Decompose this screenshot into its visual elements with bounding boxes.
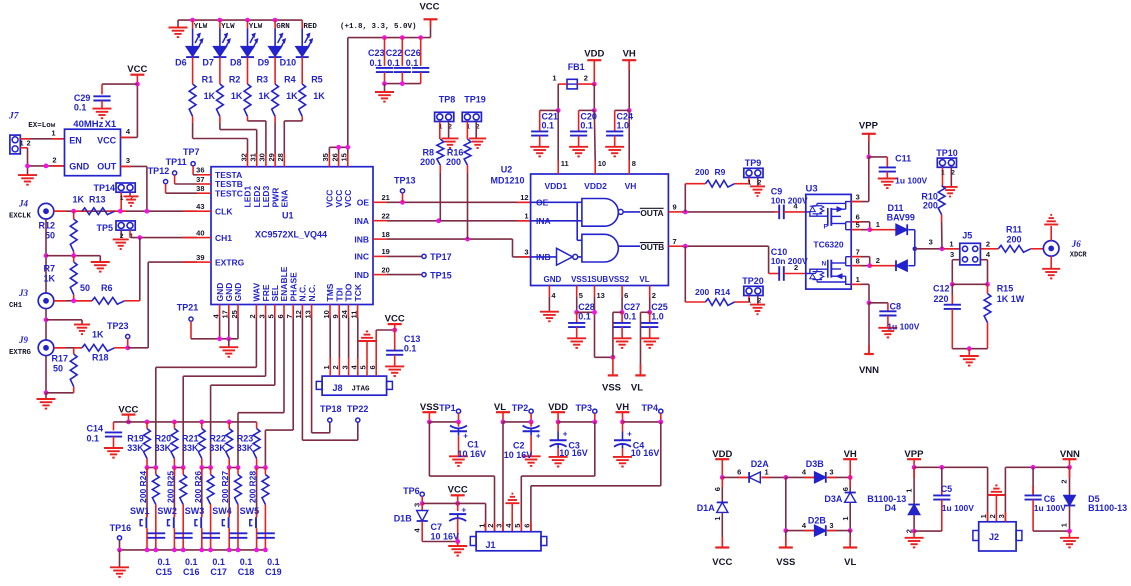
svg-text:1K: 1K bbox=[259, 91, 271, 101]
resistor R17 50 bbox=[51, 348, 77, 393]
inverted ground at J1 pin4 bbox=[505, 494, 519, 532]
svg-text:3: 3 bbox=[340, 365, 349, 369]
svg-text:19: 19 bbox=[382, 247, 390, 256]
svg-text:VCC: VCC bbox=[97, 135, 117, 145]
svg-text:JTAG: JTAG bbox=[352, 386, 371, 394]
power VL flag bottom bbox=[843, 531, 857, 569]
svg-text:22: 22 bbox=[382, 212, 390, 221]
power VCC at C7 bbox=[448, 484, 468, 506]
ground at D4 bbox=[905, 531, 924, 547]
testpoint TP13 bbox=[394, 176, 416, 203]
svg-text:SW1: SW1 bbox=[130, 506, 150, 516]
svg-text:1: 1 bbox=[979, 514, 988, 518]
testpoint TP4 bbox=[623, 403, 664, 424]
wire VSS2 junction bbox=[613, 297, 625, 357]
svg-text:C5: C5 bbox=[941, 484, 953, 494]
switch SW5 bbox=[240, 468, 260, 550]
wire U1 GND pins bbox=[191, 318, 238, 342]
svg-text:RED: RED bbox=[303, 23, 317, 31]
wire EXTRG to U1 bbox=[128, 262, 197, 348]
capacitor C25 1.0 bbox=[640, 302, 668, 348]
svg-text:20: 20 bbox=[382, 265, 390, 274]
power VSS stub bbox=[602, 357, 621, 393]
svg-text:1: 1 bbox=[941, 169, 945, 176]
junction dots J7 net bbox=[25, 164, 48, 169]
capacitor C1 10 16V bbox=[449, 422, 486, 466]
svg-text:1u 100V: 1u 100V bbox=[942, 503, 974, 513]
svg-text:1: 1 bbox=[841, 516, 850, 520]
diode D1A bbox=[697, 477, 728, 546]
svg-text:OE: OE bbox=[357, 198, 370, 208]
svg-text:10 16V: 10 16V bbox=[631, 448, 660, 458]
svg-text:0.1: 0.1 bbox=[406, 58, 419, 68]
svg-text:MD1210: MD1210 bbox=[490, 176, 524, 186]
svg-text:TP12: TP12 bbox=[148, 166, 170, 176]
svg-text:VCC: VCC bbox=[448, 484, 468, 495]
capacitor C4 10 16V bbox=[613, 422, 659, 467]
resistor R23 33K bbox=[237, 422, 260, 468]
power VH flag bbox=[622, 48, 636, 160]
ground mid column bbox=[91, 256, 110, 272]
svg-text:C13: C13 bbox=[404, 334, 421, 344]
svg-text:C11: C11 bbox=[895, 154, 911, 164]
svg-text:2: 2 bbox=[27, 138, 31, 147]
resistor R6 50 bbox=[54, 283, 140, 304]
jumper TP10 bbox=[936, 148, 958, 187]
svg-text:N: N bbox=[822, 260, 827, 267]
svg-text:GND: GND bbox=[544, 275, 562, 284]
power VNN stub bbox=[859, 303, 879, 376]
switch SW2 bbox=[157, 468, 177, 550]
svg-text:200: 200 bbox=[446, 157, 461, 167]
svg-text:7: 7 bbox=[856, 247, 860, 256]
svg-text:1K: 1K bbox=[92, 330, 104, 340]
svg-text:33K: 33K bbox=[155, 443, 172, 453]
wire VCC to J1 pin1 bbox=[422, 503, 485, 531]
svg-text:10 16V: 10 16V bbox=[559, 448, 588, 458]
svg-text:2: 2 bbox=[1060, 479, 1069, 483]
power VCC flag bottom bbox=[712, 548, 732, 569]
svg-text:11: 11 bbox=[349, 311, 358, 319]
testpoint TP17 bbox=[387, 252, 452, 262]
svg-text:R1: R1 bbox=[202, 75, 214, 85]
svg-text:C19: C19 bbox=[265, 567, 282, 577]
testpoint TP22 bbox=[347, 404, 369, 422]
capacitor C3 10 16V bbox=[549, 422, 588, 467]
svg-text:(+1.8, 3.3, 5.0V): (+1.8, 3.3, 5.0V) bbox=[340, 23, 417, 31]
svg-text:VDD: VDD bbox=[584, 48, 604, 59]
svg-text:2: 2 bbox=[652, 291, 656, 300]
svg-text:XC9572XL_VQ44: XC9572XL_VQ44 bbox=[255, 230, 327, 240]
svg-text:21: 21 bbox=[382, 193, 390, 202]
svg-text:R2: R2 bbox=[229, 75, 241, 85]
svg-text:200: 200 bbox=[695, 167, 709, 177]
svg-text:1K: 1K bbox=[286, 91, 298, 101]
svg-text:200: 200 bbox=[1006, 234, 1021, 244]
svg-text:J9: J9 bbox=[18, 335, 29, 345]
svg-text:VL: VL bbox=[631, 383, 643, 394]
ground at D5 bbox=[1060, 531, 1079, 547]
resistor R8 200 bbox=[420, 139, 444, 221]
svg-text:TP19: TP19 bbox=[464, 95, 486, 105]
wire net OE bbox=[387, 200, 531, 205]
IC U2 MD1210 bbox=[490, 165, 668, 286]
resistor R7 1K bbox=[43, 256, 77, 301]
power VPP flag bbox=[859, 121, 879, 160]
svg-text:50: 50 bbox=[53, 364, 63, 374]
U1 bottom pins bbox=[211, 266, 362, 318]
U1 left pins bbox=[196, 166, 245, 268]
svg-text:40MHz: 40MHz bbox=[73, 119, 103, 130]
wire U1 VCC pins link bbox=[329, 145, 350, 154]
svg-text:CLK: CLK bbox=[215, 206, 233, 216]
connector J6 XDCR bbox=[1043, 239, 1087, 260]
svg-text:D9: D9 bbox=[258, 58, 270, 68]
svg-text:8: 8 bbox=[856, 256, 860, 265]
svg-text:39: 39 bbox=[196, 253, 204, 262]
svg-text:TESTC: TESTC bbox=[215, 188, 243, 198]
svg-text:R19: R19 bbox=[127, 434, 144, 444]
svg-text:D10: D10 bbox=[280, 58, 297, 68]
svg-text:1: 1 bbox=[949, 240, 953, 249]
wire J8 pin6 to VCC bbox=[376, 328, 397, 371]
svg-text:R21: R21 bbox=[182, 434, 199, 444]
wire VNN rail to J2 pin3 bbox=[1005, 465, 1069, 522]
wire VCC rail bbox=[348, 35, 431, 147]
svg-text:U3: U3 bbox=[806, 184, 818, 195]
capacitor C10 10n 200V bbox=[771, 247, 808, 281]
svg-text:1K: 1K bbox=[204, 91, 216, 101]
wire CH1 line bbox=[131, 235, 197, 301]
wire LED supply rail bbox=[178, 18, 302, 23]
diode D5 B1100-13 bbox=[1060, 467, 1127, 533]
svg-text:0.1: 0.1 bbox=[542, 121, 555, 131]
ground at TP10 bbox=[943, 187, 958, 197]
svg-text:0.1: 0.1 bbox=[404, 344, 417, 354]
svg-text:VCC: VCC bbox=[127, 64, 147, 75]
svg-text:C16: C16 bbox=[183, 567, 200, 577]
testpoint TP7 bbox=[183, 147, 200, 175]
ground at U1 GND bbox=[219, 339, 238, 357]
resistor R3 1K bbox=[244, 75, 270, 117]
resistor R22 33K bbox=[209, 422, 232, 468]
svg-text:TP13: TP13 bbox=[394, 176, 416, 186]
ground above J9 bbox=[74, 320, 90, 334]
svg-text:TP7: TP7 bbox=[183, 147, 200, 157]
svg-text:1: 1 bbox=[51, 129, 55, 138]
power VSS flag bottom bbox=[776, 548, 795, 569]
wire pullup junction bbox=[199, 465, 213, 470]
junction dots CLK line bbox=[71, 209, 149, 214]
wire VPP rail to J2 pin1 bbox=[914, 465, 988, 522]
svg-text:SW2: SW2 bbox=[157, 506, 177, 516]
svg-text:8: 8 bbox=[632, 159, 636, 168]
testpoint TP18 bbox=[320, 404, 342, 422]
resistor R15 1K 1W bbox=[984, 284, 1025, 349]
connector J5 bbox=[949, 231, 990, 265]
power flag VH row bbox=[616, 402, 630, 424]
svg-text:XDCR: XDCR bbox=[1070, 252, 1088, 260]
jumper TP19 bbox=[462, 95, 486, 140]
resistor R26 200 bbox=[193, 468, 214, 505]
svg-text:INB: INB bbox=[354, 234, 369, 244]
svg-text:1: 1 bbox=[904, 489, 913, 493]
wire NC pin12 to TP22 bbox=[302, 318, 357, 441]
svg-text:TP15: TP15 bbox=[430, 270, 452, 280]
svg-text:VL: VL bbox=[639, 275, 649, 284]
svg-text:0.1: 0.1 bbox=[267, 557, 280, 567]
wire U1 signal to switch column bbox=[183, 318, 265, 468]
svg-text:TP10: TP10 bbox=[936, 148, 958, 158]
svg-text:0.1: 0.1 bbox=[158, 557, 171, 567]
capacitor C14 0.1 bbox=[87, 422, 124, 458]
U1 right pins bbox=[354, 193, 389, 280]
svg-text:C27: C27 bbox=[624, 302, 641, 312]
U1 top pins bbox=[239, 153, 353, 207]
svg-text:1: 1 bbox=[748, 298, 752, 305]
svg-text:1.0: 1.0 bbox=[617, 121, 630, 131]
ground at LED rail bbox=[169, 20, 188, 37]
capacitor C5 1u 100V bbox=[914, 467, 974, 531]
svg-text:1: 1 bbox=[765, 468, 769, 477]
power VCC at X1 bbox=[127, 64, 147, 87]
svg-text:D6: D6 bbox=[175, 58, 187, 68]
ground at TP16 bbox=[110, 550, 129, 577]
resistor R28 200 bbox=[248, 468, 269, 505]
svg-text:36: 36 bbox=[196, 166, 204, 175]
svg-text:C8: C8 bbox=[890, 301, 902, 311]
power VDD flag bottom bbox=[712, 449, 732, 480]
svg-text:TP22: TP22 bbox=[347, 404, 369, 414]
svg-text:U2: U2 bbox=[501, 165, 513, 175]
svg-text:33K: 33K bbox=[209, 443, 226, 453]
svg-text:TC6320: TC6320 bbox=[813, 239, 844, 249]
svg-text:VCC: VCC bbox=[385, 313, 405, 324]
wire pullup junction bbox=[145, 465, 159, 470]
capacitor C6 1u 100V bbox=[1025, 467, 1070, 531]
svg-text:6: 6 bbox=[624, 291, 628, 300]
testpoint TP11 bbox=[166, 157, 197, 184]
power VCC at switch rail bbox=[118, 404, 138, 424]
resistor R21 33K bbox=[182, 422, 205, 468]
svg-text:VCC: VCC bbox=[712, 557, 732, 568]
svg-text:0.1: 0.1 bbox=[87, 433, 100, 443]
testpoint TP2 bbox=[503, 403, 533, 424]
svg-text:X1: X1 bbox=[105, 119, 117, 130]
resistor R4 1K bbox=[272, 75, 298, 117]
svg-text:TP20: TP20 bbox=[742, 276, 764, 286]
svg-text:11: 11 bbox=[561, 159, 569, 168]
svg-text:C17: C17 bbox=[210, 567, 227, 577]
wire U1 signal to switch column bbox=[238, 318, 284, 468]
jumper TP14 bbox=[93, 183, 135, 211]
power VCC main bbox=[419, 1, 439, 37]
svg-text:C29: C29 bbox=[74, 93, 91, 103]
ground at J7 bbox=[18, 166, 37, 185]
wire U1 signal to switch column bbox=[156, 318, 257, 468]
svg-text:TP21: TP21 bbox=[177, 303, 199, 313]
resistor R27 200 bbox=[220, 468, 241, 505]
wire shield J4 to J3 bbox=[44, 219, 101, 293]
svg-text:10 16V: 10 16V bbox=[458, 449, 487, 459]
svg-text:5: 5 bbox=[579, 291, 583, 300]
capacitor C18 0.1 bbox=[230, 505, 255, 577]
svg-text:D7: D7 bbox=[202, 58, 214, 68]
svg-text:17: 17 bbox=[221, 310, 230, 318]
ground at TP9 bbox=[750, 186, 765, 196]
resistor R14 200 bbox=[685, 287, 748, 305]
svg-text:1: 1 bbox=[20, 138, 24, 147]
svg-text:1: 1 bbox=[477, 524, 486, 528]
svg-text:VCC: VCC bbox=[419, 1, 439, 12]
ground at U2 GND bbox=[540, 297, 559, 321]
svg-text:YLW: YLW bbox=[249, 23, 263, 31]
svg-text:BAV99: BAV99 bbox=[887, 212, 915, 222]
svg-text:2: 2 bbox=[52, 156, 56, 165]
svg-text:TP16: TP16 bbox=[110, 523, 132, 533]
svg-text:1K 1W: 1K 1W bbox=[997, 294, 1025, 304]
wire R5 to pin28 bbox=[284, 116, 302, 153]
svg-text:6: 6 bbox=[713, 487, 722, 491]
svg-text:1: 1 bbox=[713, 516, 722, 520]
svg-text:R5: R5 bbox=[311, 75, 323, 85]
svg-text:26: 26 bbox=[330, 153, 339, 161]
svg-text:B1100-13: B1100-13 bbox=[1088, 503, 1127, 513]
svg-text:YLW: YLW bbox=[194, 23, 208, 31]
svg-text:0.1: 0.1 bbox=[74, 103, 87, 113]
capacitor C19 0.1 bbox=[257, 505, 282, 577]
svg-text:C18: C18 bbox=[238, 567, 255, 577]
capacitor C22 0.1 bbox=[386, 38, 411, 84]
svg-text:2: 2 bbox=[876, 256, 880, 265]
svg-text:INC: INC bbox=[354, 252, 369, 262]
testpoint TP3 bbox=[558, 403, 597, 424]
svg-text:D3A: D3A bbox=[824, 494, 843, 504]
testpoint TP16 bbox=[110, 523, 132, 553]
svg-text:15: 15 bbox=[340, 153, 349, 161]
svg-text:3: 3 bbox=[856, 192, 860, 201]
svg-text:0.1: 0.1 bbox=[578, 312, 591, 322]
resistor R18 1K bbox=[54, 330, 130, 363]
wire J5 pin3 to C12 bbox=[950, 260, 960, 287]
ground at TP19 bbox=[469, 138, 486, 148]
svg-text:J8: J8 bbox=[333, 383, 343, 393]
svg-text:2: 2 bbox=[584, 74, 588, 83]
svg-text:200: 200 bbox=[420, 157, 435, 167]
resistor R24 200 bbox=[138, 468, 159, 505]
diode D4 B1100-13 bbox=[867, 467, 920, 533]
jumper TP9 bbox=[744, 158, 763, 187]
wire OUTB net bbox=[682, 244, 779, 302]
ground at TP14 bbox=[124, 196, 139, 206]
svg-text:3: 3 bbox=[950, 250, 954, 259]
power VPP flag bottom bbox=[904, 449, 924, 469]
ferrite bead FB1 bbox=[552, 62, 594, 89]
capacitor C15 0.1 bbox=[147, 505, 172, 577]
svg-text:2: 2 bbox=[986, 240, 990, 249]
svg-text:+: + bbox=[536, 431, 541, 440]
testpoint TP12 bbox=[148, 166, 197, 193]
wire switch ground rail bbox=[120, 548, 268, 553]
wire VL junction bbox=[641, 297, 653, 375]
svg-text:3: 3 bbox=[829, 521, 833, 530]
svg-text:10n 200V: 10n 200V bbox=[771, 195, 808, 205]
LED D9 GRN bbox=[258, 20, 290, 84]
svg-text:0.1: 0.1 bbox=[624, 312, 637, 322]
svg-text:R11: R11 bbox=[1006, 224, 1022, 234]
svg-text:EN: EN bbox=[69, 135, 82, 145]
wire J7 pin1 to X1 EN bbox=[20, 129, 64, 139]
wire SUB to VSS bbox=[592, 297, 615, 360]
svg-text:D1B: D1B bbox=[394, 513, 413, 523]
svg-text:3: 3 bbox=[413, 503, 422, 507]
capacitor C7 10 16V bbox=[431, 503, 467, 541]
connector J4 EXCLK bbox=[9, 199, 54, 221]
svg-text:D8: D8 bbox=[230, 58, 242, 68]
U2 left pins bbox=[520, 193, 550, 262]
svg-text:1.0: 1.0 bbox=[651, 312, 664, 322]
connector J2 bbox=[973, 514, 1022, 551]
svg-text:OUT: OUT bbox=[97, 162, 117, 172]
svg-text:VH: VH bbox=[623, 48, 636, 59]
diode D1B bbox=[394, 503, 428, 542]
transistor PMOS in U3 bbox=[806, 202, 851, 231]
svg-text:VH: VH bbox=[625, 181, 637, 191]
svg-text:R22: R22 bbox=[209, 434, 226, 444]
svg-text:CH1: CH1 bbox=[9, 302, 23, 310]
svg-text:VSS: VSS bbox=[776, 557, 795, 568]
svg-text:12: 12 bbox=[294, 310, 303, 318]
testpoint TP21 bbox=[177, 303, 199, 339]
svg-text:TP23: TP23 bbox=[107, 321, 129, 331]
svg-text:18: 18 bbox=[382, 230, 390, 239]
svg-text:J7: J7 bbox=[8, 112, 20, 122]
svg-text:1: 1 bbox=[524, 212, 528, 221]
resistor R12 50 bbox=[38, 211, 77, 256]
svg-text:N.C.: N.C. bbox=[307, 285, 317, 302]
svg-text:1: 1 bbox=[120, 195, 124, 202]
svg-text:R17: R17 bbox=[51, 354, 68, 364]
svg-text:D2B: D2B bbox=[808, 515, 827, 525]
jumper TP5 bbox=[96, 221, 135, 240]
wire JTAG lines bbox=[330, 318, 358, 371]
resistor R16 200 bbox=[446, 139, 471, 239]
svg-text:2: 2 bbox=[951, 169, 955, 176]
capacitor C2 10 16V bbox=[504, 422, 541, 466]
wire U1 signal to switch column bbox=[211, 318, 275, 468]
ground at TP20 bbox=[750, 305, 765, 315]
svg-text:0.1: 0.1 bbox=[370, 58, 383, 68]
svg-text:33K: 33K bbox=[182, 443, 199, 453]
svg-text:10: 10 bbox=[322, 310, 331, 318]
resistor R2 1K bbox=[217, 75, 243, 117]
svg-text:38: 38 bbox=[196, 184, 204, 193]
svg-text:VNN: VNN bbox=[859, 365, 879, 376]
wire D1B to C7 ground bbox=[422, 539, 460, 544]
svg-text:VSS: VSS bbox=[602, 383, 621, 394]
wire R2 to pin31 bbox=[220, 116, 257, 153]
wire switch VCC rail bbox=[114, 420, 257, 425]
wire pullup junction bbox=[172, 465, 186, 470]
capacitor C24 1.0 bbox=[605, 110, 633, 156]
svg-text:R18: R18 bbox=[92, 353, 109, 363]
svg-text:R6: R6 bbox=[101, 283, 113, 293]
diode D3B bbox=[786, 459, 853, 483]
transistor NMOS in U3 bbox=[806, 257, 851, 285]
svg-text:C12: C12 bbox=[933, 284, 950, 294]
power flag VL row bbox=[494, 402, 510, 424]
svg-text:10 16V: 10 16V bbox=[431, 531, 460, 541]
